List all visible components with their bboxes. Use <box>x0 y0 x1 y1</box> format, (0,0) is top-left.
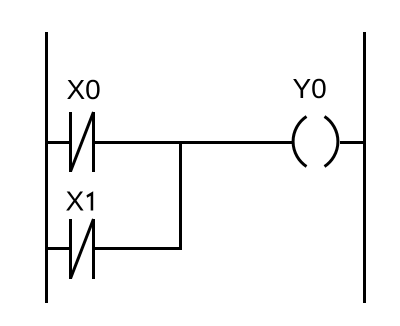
branch wire (junction to bottom rung) <box>179 143 182 249</box>
contact X1 (normally closed) <box>71 219 94 279</box>
wire: coil Y0 to right rail <box>340 141 366 144</box>
left power rail <box>45 32 48 303</box>
coil Y0 <box>293 117 338 167</box>
svg-text:X: X <box>66 186 85 217</box>
wire: contact X1 to branch junction <box>94 247 183 250</box>
wire: left rail to contact X0 <box>45 141 71 144</box>
wire: left rail to contact X1 <box>45 247 71 250</box>
wire: contact X0 to coil Y0 (through junction) <box>94 141 294 144</box>
label X0 <box>67 74 101 105</box>
right power rail <box>363 32 366 303</box>
label X1 <box>66 186 94 217</box>
svg-text:Y0: Y0 <box>293 73 327 104</box>
svg-text:X0: X0 <box>67 74 101 105</box>
label Y0 <box>293 73 327 104</box>
contact X0 (normally closed) <box>71 112 94 172</box>
